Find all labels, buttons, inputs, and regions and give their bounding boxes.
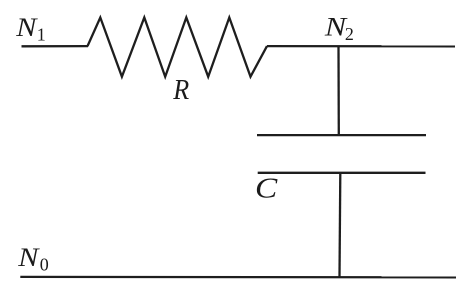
resistor value label R [172, 73, 189, 106]
wire from N1 to resistor [22, 45, 89, 48]
node N1 label [15, 14, 46, 45]
wire from node N2 down to capacitor top plate [337, 46, 340, 135]
capacitor C bottom plate [258, 172, 426, 174]
wire from resistor through node N2 to right edge [267, 45, 455, 48]
svg-text:C: C [255, 172, 278, 204]
svg-text:2: 2 [345, 24, 354, 44]
svg-text:N: N [17, 244, 40, 273]
wire: bottom rail N0 [20, 276, 456, 279]
node N2 label [324, 13, 354, 44]
svg-text:R: R [172, 73, 189, 106]
capacitor value label C [255, 172, 278, 204]
resistor R [88, 18, 268, 77]
svg-text:0: 0 [40, 255, 49, 275]
svg-text:1: 1 [37, 25, 46, 45]
capacitor C top plate [257, 134, 426, 136]
wire from capacitor bottom plate down to node N0 rail [338, 173, 341, 277]
node N0 label [17, 244, 49, 275]
svg-text:N: N [15, 14, 38, 43]
